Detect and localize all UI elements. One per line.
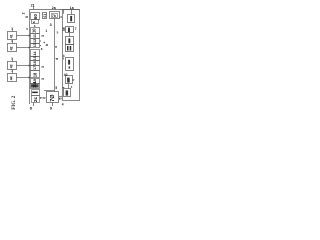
svg-text:8: 8	[41, 47, 43, 51]
svg-text:13: 13	[33, 43, 37, 47]
svg-text:10: 10	[32, 28, 37, 33]
svg-text:1a: 1a	[70, 6, 74, 10]
svg-text:61: 61	[43, 14, 47, 18]
svg-text:44: 44	[10, 76, 14, 80]
svg-text:0: 0	[43, 97, 47, 99]
svg-text:17: 17	[33, 66, 37, 70]
svg-text:4: 4	[62, 102, 64, 106]
svg-text:c: c	[54, 46, 58, 48]
svg-text:2a: 2a	[52, 6, 56, 10]
svg-text:7b: 7b	[52, 14, 56, 18]
svg-text:42: 42	[10, 46, 14, 50]
svg-text:48: 48	[62, 27, 66, 31]
svg-text:2c: 2c	[33, 96, 39, 102]
svg-text:5: 5	[55, 86, 57, 90]
svg-text:12: 12	[33, 39, 37, 43]
svg-text:51: 51	[58, 96, 62, 100]
svg-text:FIG. 2: FIG. 2	[11, 95, 17, 110]
svg-text:1bL: 1bL	[32, 80, 37, 88]
svg-text:11: 11	[33, 34, 37, 38]
svg-text:d: d	[55, 58, 59, 60]
svg-text:7: 7	[75, 27, 77, 31]
svg-text:15: 15	[33, 56, 37, 60]
svg-text:18: 18	[32, 72, 37, 77]
svg-text:16: 16	[33, 61, 37, 65]
svg-text:4: 4	[63, 54, 65, 58]
svg-text:1: 1	[45, 29, 47, 33]
svg-text:3: 3	[41, 78, 45, 80]
svg-text:40: 40	[64, 73, 68, 77]
svg-text:a: a	[32, 21, 36, 23]
svg-text:3: 3	[41, 66, 45, 68]
svg-text:41: 41	[10, 34, 14, 38]
svg-text:7Ø: 7Ø	[50, 94, 56, 102]
svg-text:3: 3	[41, 35, 45, 37]
svg-text:2: 2	[21, 12, 25, 14]
svg-text:3: 3	[50, 23, 52, 27]
svg-text:1: 1	[59, 16, 63, 18]
svg-text:21: 21	[31, 3, 35, 7]
svg-text:60: 60	[33, 14, 38, 20]
